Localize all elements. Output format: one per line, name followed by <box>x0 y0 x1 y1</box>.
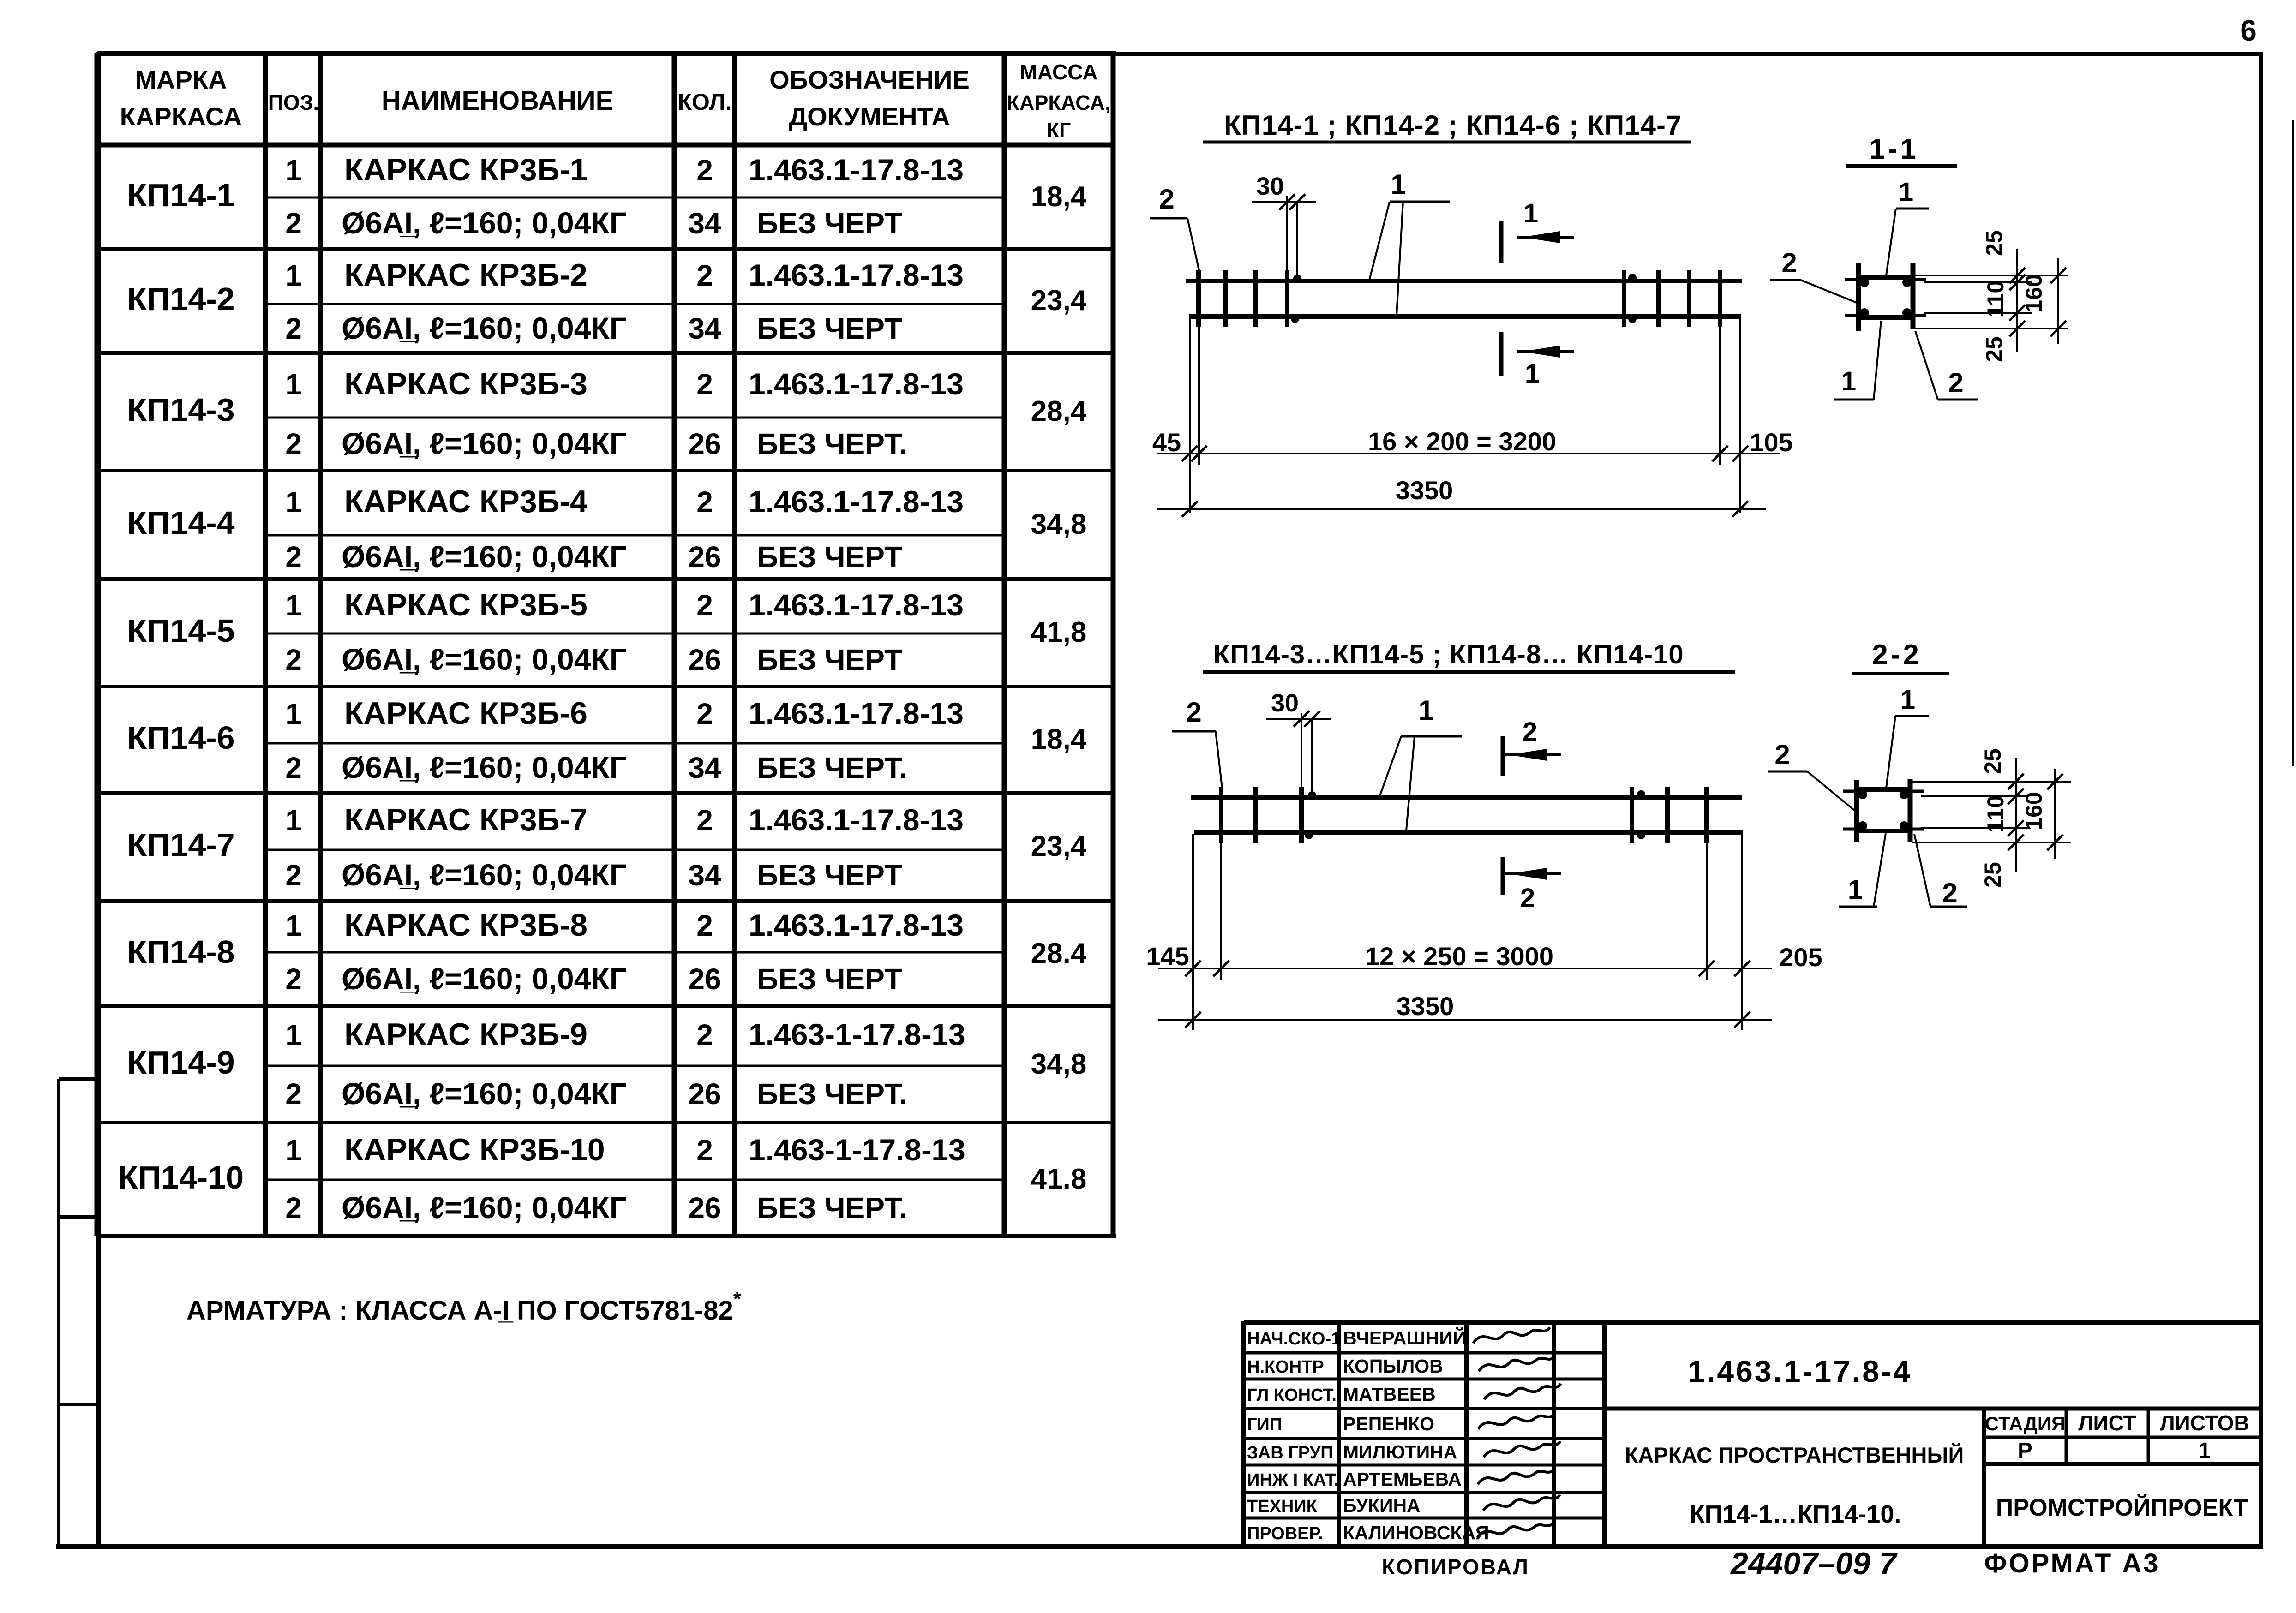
dim 30 extension line b (view 1) <box>1296 202 1298 277</box>
section 2-2 ext line top bar <box>1921 795 2029 797</box>
dim tick <box>1182 501 1198 517</box>
table vertical line col 0 <box>95 53 100 1236</box>
section mark 1 top vertical <box>1499 221 1504 263</box>
svg-text:КП14-6: КП14-6 <box>127 720 234 756</box>
section 2-2 bar dot BR <box>1900 821 1909 830</box>
svg-text:1.463-1-17.8-13: 1.463-1-17.8-13 <box>749 1017 965 1051</box>
signature squiggle row 3 <box>1484 1384 1561 1399</box>
bar 2 end dot bottom left (view 1) <box>1291 315 1299 323</box>
svg-text:БЕЗ ЧЕРТ: БЕЗ ЧЕРТ <box>757 643 902 676</box>
title block signature row line 5 <box>1244 1464 1605 1467</box>
stadia col line 2 <box>2147 1409 2150 1464</box>
stirrup right 4 (view 1) <box>1718 270 1722 327</box>
svg-text:205: 205 <box>1779 943 1822 972</box>
svg-text:НАИМЕНОВАНИЕ: НАИМЕНОВАНИЕ <box>382 86 614 116</box>
tick <box>2050 268 2066 283</box>
tick <box>2008 835 2024 850</box>
bar 2 end dot top right (view 1) <box>1628 274 1637 282</box>
section 2-2 stirrup bottom edge <box>1854 829 1912 833</box>
beam bottom chord bar 1 (view 2) <box>1194 830 1743 835</box>
table vertical line col 1 <box>263 53 268 1236</box>
stirrup right 3 (view 1) <box>1687 270 1691 327</box>
svg-text:25: 25 <box>1980 862 2006 888</box>
dim tick <box>1182 446 1198 461</box>
table outer top line <box>97 51 1116 55</box>
svg-text:1: 1 <box>1899 177 1913 207</box>
title block top line <box>1244 1320 2261 1325</box>
table row boundary 2 <box>97 351 1113 355</box>
svg-text:КП14-8: КП14-8 <box>127 934 234 970</box>
tick <box>2008 774 2024 789</box>
svg-text:МАТВЕЕВ: МАТВЕЕВ <box>1343 1384 1436 1405</box>
section 1-1 corner hook bottom-left <box>1845 314 1858 317</box>
svg-text:1: 1 <box>285 1018 302 1051</box>
stirrup right 1 (view 1) <box>1622 270 1626 327</box>
table sub-row line 7 <box>265 849 1004 851</box>
svg-text:145: 145 <box>1146 942 1189 971</box>
tick <box>2008 820 2024 836</box>
svg-text:3350: 3350 <box>1397 992 1454 1021</box>
svg-text:1: 1 <box>1848 875 1863 905</box>
svg-text:2: 2 <box>285 540 302 574</box>
table sub-row line 5 <box>265 633 1004 635</box>
svg-text:2: 2 <box>1523 717 1537 747</box>
svg-text:1.463-1-17.8-13: 1.463-1-17.8-13 <box>749 1133 965 1167</box>
svg-text:41,8: 41,8 <box>1031 616 1087 648</box>
section mark 1 bottom arrow <box>1522 346 1560 358</box>
dim tick <box>1185 961 1201 976</box>
sheet frame left border <box>96 52 101 1548</box>
svg-text:КП14-1…КП14-10.: КП14-1…КП14-10. <box>1690 1500 1901 1528</box>
view title underline lower <box>1203 670 1735 674</box>
svg-text:34,8: 34,8 <box>1031 1048 1087 1080</box>
svg-text:РЕПЕНКО: РЕПЕНКО <box>1343 1413 1434 1434</box>
svg-text:3350: 3350 <box>1396 476 1453 505</box>
svg-text:18,4: 18,4 <box>1031 723 1087 755</box>
section 1-1 stirrup top edge <box>1856 275 1915 280</box>
svg-text:1.463.1-17.8-13: 1.463.1-17.8-13 <box>749 367 964 401</box>
signature squiggle row 2 <box>1479 1356 1555 1371</box>
svg-text:БЕЗ ЧЕРТ: БЕЗ ЧЕРТ <box>757 207 902 240</box>
scan artifact line right edge <box>2292 120 2294 766</box>
svg-text:28.4: 28.4 <box>1031 938 1087 969</box>
svg-text:БЕЗ ЧЕРТ.: БЕЗ ЧЕРТ. <box>757 751 907 784</box>
svg-text:АРТЕМЬЕВА: АРТЕМЬЕВА <box>1343 1469 1462 1490</box>
svg-text:Ø6АI̲, ℓ=160; 0,04КГ: Ø6АI̲, ℓ=160; 0,04КГ <box>342 206 627 240</box>
title block outer left vertical <box>1241 1321 1246 1547</box>
svg-text:2: 2 <box>696 154 713 187</box>
svg-text:2: 2 <box>696 1134 713 1167</box>
svg-text:1: 1 <box>285 154 302 187</box>
svg-text:ВЧЕРАШНИЙ: ВЧЕРАШНИЙ <box>1343 1327 1466 1349</box>
section mark 2 top vertical <box>1501 736 1505 776</box>
signature squiggle row 1 <box>1473 1327 1550 1343</box>
sheet frame bottom border <box>56 1544 2263 1549</box>
stirrup left 3 (view 1) <box>1253 270 1258 327</box>
svg-text:2-2: 2-2 <box>1872 639 1922 671</box>
bar 2 end dot bottom left (view 2) <box>1305 831 1313 839</box>
svg-text:КП14-10: КП14-10 <box>118 1159 244 1195</box>
section 2-2 dim line 160 <box>2054 769 2056 859</box>
svg-text:110: 110 <box>1983 795 2008 833</box>
section 2-2 stirrup top edge <box>1854 787 1912 792</box>
beam top chord bar 1 (view 2) <box>1191 795 1742 800</box>
svg-text:2: 2 <box>1781 247 1797 278</box>
svg-text:Ø6АI̲, ℓ=160; 0,04КГ: Ø6АI̲, ℓ=160; 0,04КГ <box>342 962 627 996</box>
beam top chord bar 1 (view 1) <box>1186 279 1742 283</box>
section 2-2 dim line 25-110-25 <box>2015 758 2017 872</box>
stirrup left 4 (view 1) <box>1285 270 1289 327</box>
svg-text:БЕЗ ЧЕРТ.: БЕЗ ЧЕРТ. <box>757 427 907 460</box>
table sub-row line 10 <box>265 1179 1004 1181</box>
svg-text:БЕЗ ЧЕРТ.: БЕЗ ЧЕРТ. <box>757 1077 907 1111</box>
stirrup left 1 (view 1) <box>1196 270 1201 327</box>
bar 2 end dot top left (view 1) <box>1293 275 1301 283</box>
section mark 2 bottom arrow <box>1509 868 1547 880</box>
bar 2 end dot bottom right (view 1) <box>1628 315 1637 323</box>
section 2-2 corner hook top-left <box>1843 790 1857 793</box>
svg-text:25: 25 <box>1980 748 2006 774</box>
svg-text:БУКИНА: БУКИНА <box>1343 1495 1421 1516</box>
svg-text:1.463.1-17.8-13: 1.463.1-17.8-13 <box>749 153 964 187</box>
tick <box>2008 789 2024 804</box>
dim tick <box>1732 446 1748 461</box>
svg-text:2: 2 <box>696 589 713 622</box>
svg-text:КАРКАС ПРОСТРАНСТВЕННЫЙ: КАРКАС ПРОСТРАНСТВЕННЫЙ <box>1625 1443 1964 1467</box>
svg-text:1: 1 <box>1418 695 1433 726</box>
svg-text:2: 2 <box>1942 878 1957 908</box>
svg-text:2: 2 <box>1774 739 1790 770</box>
svg-text:2: 2 <box>1520 883 1535 913</box>
view title underline <box>1203 141 1691 144</box>
sheet frame right border <box>2259 52 2263 1548</box>
table header bottom line <box>97 143 1113 148</box>
title block signature row line 2 <box>1244 1378 1605 1381</box>
svg-text:КП14-1 ; КП14-2 ; КП14-6 ; КП1: КП14-1 ; КП14-2 ; КП14-6 ; КП14-7 <box>1224 110 1682 141</box>
leader 1 underline (view 1) <box>1390 201 1450 203</box>
dim 30 extension line a (view 2) <box>1301 713 1302 787</box>
svg-text:МАРКА: МАРКА <box>135 65 227 94</box>
svg-text:БЕЗ ЧЕРТ: БЕЗ ЧЕРТ <box>757 962 902 996</box>
tick <box>2047 774 2063 789</box>
svg-text:ДОКУМЕНТА: ДОКУМЕНТА <box>789 102 950 131</box>
svg-text:ГИП: ГИП <box>1247 1415 1282 1434</box>
dim extension left outer (view 1) <box>1189 318 1191 513</box>
section 1-1 dim line 160 <box>2057 258 2059 344</box>
section 1-1 bar dot BL <box>1860 308 1869 317</box>
svg-text:26: 26 <box>688 962 721 996</box>
svg-text:БЕЗ ЧЕРТ: БЕЗ ЧЕРТ <box>757 312 902 345</box>
section 2-2 corner hook bottom-right <box>1910 828 1924 831</box>
stirrup left 2 (view 2) <box>1253 787 1258 843</box>
svg-text:ТЕХНИК: ТЕХНИК <box>1247 1497 1318 1516</box>
title block signature row line 7 <box>1244 1517 1605 1520</box>
dim line 12x250=3000 (view 2) <box>1158 968 1772 969</box>
svg-text:2: 2 <box>1186 697 1201 728</box>
svg-text:1.463.1-17.8-4: 1.463.1-17.8-4 <box>1688 1354 1912 1388</box>
stirrup left 3 (view 2) <box>1299 787 1304 843</box>
stirrup right 2 (view 1) <box>1656 270 1661 327</box>
table row boundary 4 <box>97 577 1113 581</box>
svg-text:ПРОВЕР.: ПРОВЕР. <box>1247 1524 1323 1543</box>
svg-text:ПРОМСТРОЙПРОЕКТ: ПРОМСТРОЙПРОЕКТ <box>1996 1494 2248 1521</box>
table sub-row line 6 <box>265 742 1004 745</box>
svg-text:Ø6АI̲, ℓ=160; 0,04КГ: Ø6АI̲, ℓ=160; 0,04КГ <box>342 750 627 784</box>
stadia col line 1 <box>2065 1409 2068 1464</box>
signature squiggle row 8 <box>1477 1522 1554 1538</box>
dim 30 tick b <box>1304 711 1320 727</box>
dim 30 extension line b (view 2) <box>1311 719 1313 794</box>
section 1-1 leader 1 bottom line <box>1874 321 1881 400</box>
tick <box>2009 268 2025 283</box>
svg-text:34: 34 <box>688 207 721 240</box>
binding margin divider 2 <box>59 1403 99 1406</box>
table sub-row line 1 <box>265 197 1004 199</box>
svg-text:1: 1 <box>285 697 302 730</box>
bar 2 end dot bottom right (view 2) <box>1637 831 1645 839</box>
svg-text:КП14-3…КП14-5 ; КП14-8… КП14-: КП14-3…КП14-5 ; КП14-8… КП14-10 <box>1213 639 1684 669</box>
svg-text:2: 2 <box>285 643 302 676</box>
section 1-1 ext line top outer <box>1915 275 2068 276</box>
section 2-2 corner hook top-right <box>1910 790 1924 793</box>
svg-text:24407–09 7: 24407–09 7 <box>1730 1546 1898 1581</box>
stirrup left 2 (view 1) <box>1223 270 1228 327</box>
table vertical line col 6 <box>1111 53 1116 1236</box>
svg-text:МИЛЮТИНА: МИЛЮТИНА <box>1343 1441 1457 1463</box>
dim tick <box>1712 446 1728 461</box>
svg-text:ГЛ КОНСТ.: ГЛ КОНСТ. <box>1247 1386 1337 1405</box>
svg-text:1: 1 <box>1900 685 1915 715</box>
stirrup right 2 (view 2) <box>1665 787 1670 843</box>
stirrup right 3 (view 2) <box>1704 787 1709 843</box>
table sub-row line 8 <box>265 951 1004 954</box>
svg-text:Ø6АI̲, ℓ=160; 0,04КГ: Ø6АI̲, ℓ=160; 0,04КГ <box>342 1076 627 1111</box>
svg-text:2: 2 <box>696 909 713 942</box>
svg-text:1: 1 <box>285 368 302 401</box>
section 1-1 title underline <box>1846 164 1957 168</box>
section mark 1 bottom vertical <box>1499 332 1504 376</box>
svg-text:ОБОЗНАЧЕНИЕ: ОБОЗНАЧЕНИЕ <box>769 65 970 94</box>
leader 1 line to bottom chord (view 2) <box>1406 736 1415 830</box>
section 2-2 leader 2 left underline <box>1768 771 1807 773</box>
svg-text:КАРКАС КР3Б-3: КАРКАС КР3Б-3 <box>344 366 587 401</box>
leader 2 underline (view 1) <box>1150 217 1187 220</box>
section 2-2 leader 1 top line <box>1886 716 1895 788</box>
svg-text:Ø6АI̲, ℓ=160; 0,04КГ: Ø6АI̲, ℓ=160; 0,04КГ <box>342 311 627 345</box>
section mark 2 top arrow <box>1509 749 1547 761</box>
section 2-2 leader 1 bottom underline <box>1839 906 1877 908</box>
svg-text:КАРКАС КР3Б-1: КАРКАС КР3Б-1 <box>344 152 587 187</box>
dim tick <box>1699 961 1715 976</box>
svg-text:1: 1 <box>285 1134 302 1167</box>
section 1-1 leader 1 top line <box>1886 209 1896 275</box>
tick <box>2009 321 2025 336</box>
svg-text:Ø6АI̲, ℓ=160; 0,04КГ: Ø6АI̲, ℓ=160; 0,04КГ <box>342 858 627 892</box>
section 2-2 leader 2 left line <box>1807 771 1855 811</box>
stadia header underline <box>1984 1436 2261 1439</box>
svg-text:КАРКАС КР3Б-8: КАРКАС КР3Б-8 <box>344 908 587 943</box>
svg-text:1: 1 <box>1391 169 1406 200</box>
section 2-2 leader 1 top underline <box>1895 715 1929 717</box>
svg-text:КП14-3: КП14-3 <box>127 392 234 428</box>
section 2-2 leader 1 bottom line <box>1874 833 1886 907</box>
svg-text:КОПИРОВАЛ: КОПИРОВАЛ <box>1382 1555 1529 1579</box>
svg-text:КП14-1: КП14-1 <box>127 177 234 213</box>
section 1-1 bar dot TR <box>1902 278 1912 287</box>
svg-text:1.463.1-17.8-13: 1.463.1-17.8-13 <box>749 588 964 622</box>
svg-text:1: 1 <box>1523 198 1538 228</box>
section 1-1 corner hook top-left <box>1845 278 1858 281</box>
svg-text:Ø6АI̲, ℓ=160; 0,04КГ: Ø6АI̲, ℓ=160; 0,04КГ <box>342 1190 627 1225</box>
svg-text:ЗАВ ГРУП: ЗАВ ГРУП <box>1247 1443 1333 1463</box>
svg-text:34: 34 <box>688 312 721 345</box>
table row boundary 1 <box>97 247 1113 251</box>
dim extension right outer (view 2) <box>1741 834 1743 1030</box>
dim 30 tick a <box>1279 194 1295 210</box>
section 1-1 leader 2 left line <box>1801 280 1857 303</box>
dim extension left outer (view 2) <box>1192 834 1194 1030</box>
table sub-row line 9 <box>265 1065 1004 1067</box>
dim extension left stirrup (view 2) <box>1220 843 1222 980</box>
leader 1 line to top chord (view 1) <box>1369 202 1390 280</box>
table vertical line col 4 <box>732 53 737 1236</box>
svg-text:1-1: 1-1 <box>1869 133 1919 165</box>
signature squiggle row 5 <box>1484 1441 1560 1457</box>
svg-text:КП14-2: КП14-2 <box>127 281 234 317</box>
title block thick divider vertical <box>1602 1322 1607 1547</box>
sheet frame top border <box>97 52 2263 56</box>
svg-text:26: 26 <box>688 1077 721 1111</box>
svg-text:26: 26 <box>688 643 721 676</box>
section 1-1 bar dot TL <box>1860 278 1869 287</box>
svg-text:2: 2 <box>696 259 713 292</box>
title block signature col line 2 <box>1464 1322 1469 1547</box>
signature squiggle row 6 <box>1478 1469 1554 1484</box>
svg-text:ЛИСТОВ: ЛИСТОВ <box>2160 1411 2249 1435</box>
svg-text:МАССА: МАССА <box>1020 60 1098 84</box>
svg-text:2: 2 <box>696 485 713 519</box>
svg-text:КАРКАС КР3Б-2: КАРКАС КР3Б-2 <box>344 257 587 293</box>
dim 30 extension line a (view 1) <box>1286 196 1288 271</box>
svg-text:КП14-7: КП14-7 <box>127 827 234 863</box>
table sub-row line 4 <box>265 534 1004 537</box>
svg-text:1.463.1-17.8-13: 1.463.1-17.8-13 <box>749 696 964 730</box>
title block signature col line 1 <box>1337 1322 1341 1547</box>
section 1-1 ext line bottom outer <box>1915 328 2068 329</box>
table vertical line col 5 <box>1002 53 1007 1236</box>
svg-text:30: 30 <box>1256 173 1284 200</box>
dim tick <box>1732 501 1748 517</box>
leader 2 line (view 2) <box>1216 731 1222 788</box>
svg-text:105: 105 <box>1750 428 1792 457</box>
svg-text:25: 25 <box>1981 230 2007 256</box>
svg-text:1.463.1-17.8-13: 1.463.1-17.8-13 <box>749 484 964 519</box>
stadia row underline <box>1984 1462 2261 1466</box>
table vertical line col 3 <box>672 53 677 1236</box>
svg-text:ПОЗ.: ПОЗ. <box>268 90 319 114</box>
svg-text:41.8: 41.8 <box>1031 1163 1087 1195</box>
bar 2 end dot top right (view 2) <box>1637 790 1645 799</box>
svg-text:34: 34 <box>688 859 721 892</box>
svg-text:2: 2 <box>285 207 302 240</box>
section 2-2 title underline <box>1852 672 1949 675</box>
beam bottom chord bar 1 (view 1) <box>1189 314 1741 319</box>
section 1-1 leader 2 bottom line <box>1915 331 1938 400</box>
section 2-2 bar dot TR <box>1900 790 1909 799</box>
svg-text:1: 1 <box>2199 1439 2211 1463</box>
svg-text:Ø6АI̲, ℓ=160; 0,04КГ: Ø6АI̲, ℓ=160; 0,04КГ <box>342 642 627 676</box>
dim tick <box>1734 1012 1750 1028</box>
svg-text:1: 1 <box>285 485 302 519</box>
signature squiggle row 7 <box>1483 1495 1560 1511</box>
svg-text:КАРКАС КР3Б-5: КАРКАС КР3Б-5 <box>344 587 587 622</box>
svg-text:28,4: 28,4 <box>1031 395 1087 427</box>
svg-text:2: 2 <box>285 427 302 460</box>
dim extension right outer (view 1) <box>1739 318 1741 513</box>
section 1-1 leader 1 top underline <box>1896 208 1929 210</box>
svg-text:Ø6АI̲, ℓ=160; 0,04КГ: Ø6АI̲, ℓ=160; 0,04КГ <box>342 539 627 574</box>
title block signature row line 4 <box>1244 1437 1605 1440</box>
section 1-1 leader 2 left underline <box>1770 279 1801 281</box>
svg-text:2: 2 <box>285 312 302 345</box>
stirrup left 1 (view 2) <box>1219 787 1223 843</box>
tick <box>2050 321 2066 336</box>
svg-text:2: 2 <box>285 751 302 784</box>
svg-text:2: 2 <box>285 962 302 996</box>
dim tick <box>1191 446 1207 461</box>
svg-text:2: 2 <box>696 1018 713 1051</box>
svg-text:КАРКАС КР3Б-7: КАРКАС КР3Б-7 <box>344 802 587 837</box>
section 2-2 corner hook bottom-left <box>1843 828 1857 831</box>
section 1-1 ext line top bar <box>1924 281 2032 283</box>
leader 1 line to top chord (view 2) <box>1379 736 1401 797</box>
table row boundary 9 <box>97 1121 1113 1124</box>
dim 30 line (view 2) <box>1266 718 1331 720</box>
svg-text:КАЛИНОВСКАЯ: КАЛИНОВСКАЯ <box>1343 1522 1489 1543</box>
svg-text:2: 2 <box>696 804 713 837</box>
svg-text:2: 2 <box>696 368 713 401</box>
title block line under doc number <box>1605 1407 2261 1411</box>
svg-text:34,8: 34,8 <box>1031 508 1087 540</box>
bar 2 end dot top left (view 2) <box>1308 791 1316 800</box>
dim 30 line (view 1) <box>1252 201 1316 203</box>
title block stadia cell left vertical <box>1982 1409 1986 1547</box>
tick <box>2009 305 2025 321</box>
dim tick <box>1213 961 1229 976</box>
svg-text:КАРКАСА: КАРКАСА <box>120 102 242 131</box>
section 2-2 ext line bottom outer <box>1912 842 2071 843</box>
svg-text:2: 2 <box>696 697 713 730</box>
binding margin box top line <box>59 1077 99 1081</box>
svg-text:КП14-5: КП14-5 <box>127 613 234 649</box>
leader 2 underline (view 2) <box>1172 730 1216 733</box>
table sub-row line 2 <box>265 303 1004 305</box>
table vertical line col 2 <box>318 53 323 1236</box>
svg-text:КОПЫЛОВ: КОПЫЛОВ <box>1343 1356 1443 1377</box>
svg-text:23,4: 23,4 <box>1031 830 1087 862</box>
table sub-row line 3 <box>265 417 1004 419</box>
svg-text:45: 45 <box>1152 428 1181 457</box>
dim line 16x200=3200 (view 1) <box>1157 453 1780 454</box>
binding margin divider 1 <box>59 1215 99 1219</box>
section 2-2 stirrup left vertical <box>1854 780 1859 842</box>
table row boundary 5 <box>97 685 1113 688</box>
section 2-2 ext line top outer <box>1912 781 2071 783</box>
svg-text:1.463.1-17.8-13: 1.463.1-17.8-13 <box>749 258 964 292</box>
svg-text:1: 1 <box>285 909 302 942</box>
table row boundary 3 <box>97 469 1113 472</box>
table row boundary 6 <box>97 791 1113 795</box>
